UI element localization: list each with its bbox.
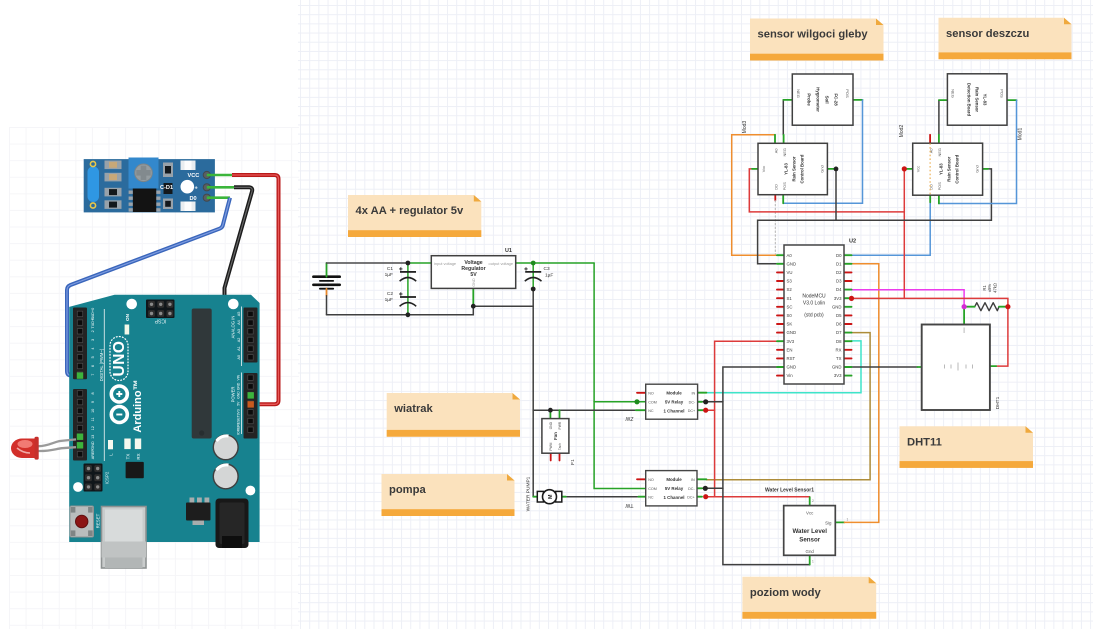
svg-text:NEG: NEG xyxy=(937,148,942,156)
svg-text:GND: GND xyxy=(787,261,797,266)
svg-text:3V3: 3V3 xyxy=(237,409,241,415)
wire: sensor D0 stub (green) xyxy=(207,196,230,199)
svg-text:YL-83: YL-83 xyxy=(784,163,789,175)
svg-text:ICSP2: ICSP2 xyxy=(105,471,110,484)
svg-text:GND: GND xyxy=(832,304,842,309)
svg-text:D6: D6 xyxy=(836,322,842,327)
Mod3 NEG stub (green) xyxy=(783,135,785,144)
battery positive lead (green) xyxy=(326,263,328,277)
wire: gray GND net NodeMCU left GND down to relays DC- and WLS Gnd xyxy=(723,367,810,565)
svg-text:A2: A2 xyxy=(237,338,241,343)
svg-text:9: 9 xyxy=(91,401,95,403)
svg-text:Control Board: Control Board xyxy=(800,154,805,183)
wire: sensor VCC stub (green) xyxy=(207,174,232,177)
wire: 5V rail to relay TW COM (green) xyxy=(594,402,646,489)
wire: C1/C2 vertical (green) xyxy=(407,263,409,315)
power header VIN..IOREF xyxy=(244,373,258,439)
svg-text:Mod3: Mod3 xyxy=(742,121,748,134)
svg-text:input voltage: input voltage xyxy=(434,261,456,266)
svg-text:GND: GND xyxy=(91,441,95,450)
wire: blue D0 to Arduino digital 7 xyxy=(67,198,230,376)
ratsnest: Mod2 A0 to DO (orange dotted, over box) xyxy=(929,143,931,195)
svg-text:sensor wilgoci gleby: sensor wilgoci gleby xyxy=(758,29,869,41)
svg-text:IOREF: IOREF xyxy=(237,425,241,435)
NodeMCU U2 pin stubs (left: A0..Vin, right: D0..3V3) xyxy=(777,254,784,256)
FC-28 POS stub (green) xyxy=(853,99,863,101)
svg-text:DHT1: DHT1 xyxy=(995,396,1001,409)
water pump WATER PUMP1 (motor symbol) xyxy=(537,491,543,502)
note: sensor deszczu xyxy=(939,18,1072,60)
wire: DHT data lead (green) xyxy=(963,307,965,325)
voltage regulator U1 xyxy=(431,256,515,289)
wire: U1 output to C3 and to relay rail (green) xyxy=(516,262,594,264)
svg-text:YL-83: YL-83 xyxy=(938,163,943,175)
ICSP header (top) xyxy=(146,300,175,319)
svg-text:WATER PUMP1: WATER PUMP1 xyxy=(525,476,531,511)
svg-text:POS: POS xyxy=(782,182,787,191)
svg-text:Gnd: Gnd xyxy=(806,549,815,554)
wire: black FC-28 NEG down to Mod3 NEG xyxy=(782,100,784,135)
svg-text:Vcc: Vcc xyxy=(916,166,921,173)
svg-text:Probe: Probe xyxy=(807,93,812,106)
wire: C3 vertical (green) xyxy=(532,263,534,289)
wire: relay ZW COM (green) xyxy=(594,401,646,403)
svg-text:Sig: Sig xyxy=(825,520,832,525)
NodeMCU V3.0 Lolin U2 xyxy=(784,245,844,384)
node: relay TW DC- xyxy=(703,486,708,491)
node: fan GND tap xyxy=(548,408,553,413)
node: U1 GND xyxy=(471,304,476,309)
note: pompa xyxy=(382,474,515,516)
USB connector xyxy=(102,507,147,569)
svg-text:POWER: POWER xyxy=(230,387,235,403)
relay ZW NC pin stub (green) xyxy=(636,409,646,411)
svg-text:A5: A5 xyxy=(237,312,241,317)
svg-text:5V: 5V xyxy=(237,401,241,406)
wire: battery- down to bottom rail (black) xyxy=(326,296,328,315)
svg-text:S0: S0 xyxy=(787,313,793,318)
node: relay TW DC+ xyxy=(703,494,708,499)
svg-text:DC-: DC- xyxy=(689,400,696,404)
svg-text:Water Level: Water Level xyxy=(792,528,827,535)
ratsnest: Mod2 A0 to DO (orange dotted) xyxy=(929,143,931,195)
svg-text:A4: A4 xyxy=(237,320,241,325)
svg-text:Rain Sensor: Rain Sensor xyxy=(792,156,797,181)
node: relay ZW DC+ xyxy=(703,408,708,413)
RESET button xyxy=(70,506,94,537)
svg-text:10: 10 xyxy=(91,409,95,413)
svg-text:sensor deszczu: sensor deszczu xyxy=(946,28,1029,40)
note: 4x AA + regulator 5v xyxy=(348,195,481,237)
svg-text:NC: NC xyxy=(648,495,654,499)
svg-text:FC-28: FC-28 xyxy=(834,93,839,106)
svg-text:NEG: NEG xyxy=(796,89,801,98)
svg-text:D3: D3 xyxy=(836,279,842,284)
FC-28 NEG stub (green) xyxy=(783,99,792,101)
connected-pin markers xyxy=(77,372,83,378)
svg-text:S1: S1 xyxy=(787,296,793,301)
wire: blue net NodeMCU D0 to Mod2 DO xyxy=(852,202,931,255)
svg-text:DC-: DC- xyxy=(688,487,695,491)
power jack xyxy=(216,499,249,549)
UNO logo xyxy=(110,337,128,381)
svg-text:Vcc: Vcc xyxy=(761,166,766,173)
svg-text:Tach: Tach xyxy=(558,443,562,450)
svg-text:COM: COM xyxy=(648,487,657,491)
svg-text:4: 4 xyxy=(91,348,95,350)
svg-text:NO: NO xyxy=(648,478,654,482)
wire: blue FC-28 POS to Mod3 POS xyxy=(783,100,862,203)
svg-text:7: 7 xyxy=(91,374,95,376)
svg-text:Mod1: Mod1 xyxy=(1018,128,1024,141)
svg-text:DO: DO xyxy=(774,184,779,190)
Arduino infinity logo xyxy=(111,386,127,402)
Mod2 DO stub (green) xyxy=(929,195,931,202)
Mod1 NEG stub (green) xyxy=(939,99,948,101)
svg-text:U2: U2 xyxy=(849,239,856,245)
svg-text:6: 6 xyxy=(91,365,95,367)
svg-text:output voltage: output voltage xyxy=(489,261,513,266)
svg-text:NodeMCU: NodeMCU xyxy=(802,294,826,300)
YL-83 Rain Sensor Control Board (Mod2) xyxy=(913,143,983,195)
Arduino UNO board xyxy=(69,295,259,542)
svg-text:NEG: NEG xyxy=(782,148,787,156)
wire: black rail to relay ZW NC, fan GND tap (black) xyxy=(533,409,636,411)
svg-text:3V3: 3V3 xyxy=(834,373,842,378)
svg-text:PWR: PWR xyxy=(558,421,562,429)
fan F1 unconnected bottom stubs (red) xyxy=(550,453,552,460)
svg-text:RST: RST xyxy=(787,356,796,361)
WLS Vcc stub (green) xyxy=(809,497,811,505)
svg-text:5: 5 xyxy=(91,356,95,358)
ICSP2 header (bottom) xyxy=(84,464,103,492)
svg-text:D5: D5 xyxy=(836,313,842,318)
Mod3 A0 stub (green) xyxy=(774,135,776,144)
node: relay ZW DC- xyxy=(703,399,708,404)
svg-text:1: 1 xyxy=(847,518,849,522)
svg-text:8: 8 xyxy=(91,392,95,394)
FC-28 Soil Hygrometer Probe xyxy=(792,74,853,125)
wire: orange net Mod3 A0 to NodeMCU A0 xyxy=(732,135,777,255)
Mod2 NEG stub (green) xyxy=(938,135,940,143)
node: gnd rail/C2 xyxy=(406,312,411,317)
resistor R1 47k zigzag xyxy=(975,303,999,311)
svg-text:C3: C3 xyxy=(544,266,550,272)
svg-text:D2: D2 xyxy=(836,270,842,275)
svg-text:Control Board: Control Board xyxy=(954,154,959,183)
svg-text:ANALOG IN: ANALOG IN xyxy=(230,316,235,339)
svg-text:1µF: 1µF xyxy=(545,273,553,279)
svg-text:DC+: DC+ xyxy=(688,409,695,413)
Mod2 Vcc stub (green) + red junction xyxy=(904,168,912,170)
svg-text:D7: D7 xyxy=(836,330,842,335)
svg-text:SC: SC xyxy=(787,304,793,309)
wire: C1 top to U1 input (green) xyxy=(408,262,431,264)
node: 5V/C3 xyxy=(531,261,536,266)
note: DHT11 xyxy=(900,426,1034,468)
svg-text:IN: IN xyxy=(692,391,696,395)
capacitor C3 1uF xyxy=(524,267,541,281)
battery BAT1 (4xAA) xyxy=(313,277,339,289)
svg-text:D4: D4 xyxy=(836,287,842,292)
svg-text:1: 1 xyxy=(812,560,814,564)
svg-text:IN: IN xyxy=(691,478,695,482)
wire: battery+ to C1 top (gray) xyxy=(327,262,408,264)
svg-text:UNO: UNO xyxy=(111,341,128,377)
svg-text:11: 11 xyxy=(91,417,95,421)
relay module ZW (Module 5V Relay 1 Channel) xyxy=(646,384,698,419)
svg-text:TW: TW xyxy=(625,502,633,508)
svg-text:Mod2: Mod2 xyxy=(899,125,905,138)
wire: gray NodeMCU right GND to DHT11 Gnd xyxy=(852,366,918,368)
svg-text:GND: GND xyxy=(237,382,241,390)
svg-text:NO: NO xyxy=(648,391,654,395)
USB interface IC xyxy=(126,462,144,478)
svg-text:SK: SK xyxy=(787,322,793,327)
svg-text:S3: S3 xyxy=(787,279,793,284)
node: battery+/C1 xyxy=(406,261,411,266)
Mod2 POS stub (green) xyxy=(938,195,940,203)
svg-text:D1: D1 xyxy=(836,261,842,266)
node: R1 right / 3V3 xyxy=(1005,304,1010,309)
svg-text:Sensor: Sensor xyxy=(799,537,821,544)
svg-text:12: 12 xyxy=(91,426,95,430)
svg-text:47kΩ: 47kΩ xyxy=(992,283,997,293)
svg-text:C-D1: C-D1 xyxy=(160,185,173,191)
svg-text:1µF: 1µF xyxy=(385,297,393,303)
svg-text:S2: S2 xyxy=(787,287,793,292)
svg-text:C2: C2 xyxy=(387,291,393,297)
svg-text:ZW: ZW xyxy=(625,415,633,421)
svg-text:Hygrometer: Hygrometer xyxy=(816,87,821,112)
svg-text:ICSP: ICSP xyxy=(154,318,166,324)
svg-text:TX: TX xyxy=(836,356,842,361)
relay TW NO pin stub (red, unconnected) xyxy=(637,478,646,480)
svg-text:D8: D8 xyxy=(836,339,842,344)
board mounting holes xyxy=(126,299,137,310)
voltage regulator (SOT-223) xyxy=(190,498,195,504)
svg-text:Gnd: Gnd xyxy=(975,165,980,172)
svg-text:3: 3 xyxy=(91,339,95,341)
note: poziom wody xyxy=(742,577,876,619)
svg-text:VIN: VIN xyxy=(237,374,241,380)
svg-text:Soil: Soil xyxy=(825,96,830,104)
electrolytic capacitors xyxy=(213,435,238,460)
analog header A5-A0 xyxy=(244,308,258,363)
svg-text:Gnd: Gnd xyxy=(820,165,825,172)
svg-text:5V Relay: 5V Relay xyxy=(665,486,684,491)
svg-text:AREF: AREF xyxy=(91,448,95,459)
svg-text:Arduino™: Arduino™ xyxy=(132,379,144,432)
svg-text:RX: RX xyxy=(136,453,141,459)
svg-text:5V Relay: 5V Relay xyxy=(665,400,684,405)
svg-text:A0: A0 xyxy=(774,148,779,154)
node: relay ZW COM xyxy=(634,399,639,404)
svg-text:A1: A1 xyxy=(237,346,241,351)
svg-text:U1: U1 xyxy=(505,248,512,254)
svg-text:POS: POS xyxy=(937,182,942,191)
svg-text:GND: GND xyxy=(787,330,797,335)
wire: relay TW DC+ to Water Level Sensor Vcc (red) xyxy=(706,496,810,498)
svg-text:TX: TX xyxy=(125,454,130,460)
svg-text:Module: Module xyxy=(666,391,682,396)
note: sensor wilgoci gleby xyxy=(750,19,884,61)
Mod2 A0 stub (red, unconnected) xyxy=(929,135,931,143)
node: Mod3 Gnd xyxy=(834,167,839,172)
relay module TW (Module 5V Relay 1 Channel) xyxy=(646,471,697,506)
R1 value label (R1 ±5% 47kΩ) xyxy=(982,283,997,293)
relay ZW DC- stub xyxy=(698,401,723,403)
svg-text:VCC: VCC xyxy=(188,173,200,179)
svg-text:3V3: 3V3 xyxy=(834,296,842,301)
fan F1 xyxy=(542,419,569,454)
wire: magenta net NodeMCU D4 to R1/DHT data junction xyxy=(852,290,965,307)
svg-text:RX: RX xyxy=(836,347,842,352)
svg-text:A3: A3 xyxy=(237,329,241,334)
Mod1 POS stub (green) xyxy=(1007,99,1017,101)
wire: blue Mod1 POS to Mod2 POS xyxy=(939,100,1017,203)
ratsnest: Mod3 DO to NodeMCU A0 (gray dotted) xyxy=(774,201,776,255)
svg-text:1µF: 1µF xyxy=(385,272,393,278)
svg-text:C1: C1 xyxy=(387,266,393,272)
svg-text:RESET: RESET xyxy=(96,513,101,528)
Water Level Sensor xyxy=(784,506,836,556)
svg-text:A0: A0 xyxy=(787,253,793,258)
svg-text:DHT11: DHT11 xyxy=(907,436,942,448)
svg-text:1 Channel: 1 Channel xyxy=(664,495,685,500)
svg-text:(std pcb): (std pcb) xyxy=(804,313,824,319)
svg-text:13: 13 xyxy=(91,435,95,439)
svg-text:NEG: NEG xyxy=(951,89,956,98)
svg-text:DIGITAL (PWM~): DIGITAL (PWM~) xyxy=(99,348,104,381)
svg-text:5V: 5V xyxy=(470,272,477,278)
R1 leads (green) xyxy=(964,306,975,308)
YL-83 Rain Sensor Detection Board (Mod1) xyxy=(947,74,1007,125)
DHT11 sensor DHT1 xyxy=(922,325,990,411)
relay TW NC stub (green) xyxy=(638,496,645,498)
svg-text:M: M xyxy=(548,494,554,499)
svg-text:YL-83: YL-83 xyxy=(983,94,988,106)
svg-text:TXD+1: TXD+1 xyxy=(91,317,95,329)
svg-text:pompa: pompa xyxy=(389,484,426,496)
svg-text:V3.0 Lolin: V3.0 Lolin xyxy=(803,301,825,307)
svg-text:2: 2 xyxy=(812,499,814,503)
node: R1/D4/DHT data xyxy=(962,304,967,309)
svg-text:GND: GND xyxy=(237,391,241,399)
svg-text:POS: POS xyxy=(999,89,1004,98)
svg-text:GND: GND xyxy=(549,421,553,429)
svg-text:D0: D0 xyxy=(836,253,842,258)
relay TW IN stub (green) xyxy=(697,478,706,480)
svg-text:Module: Module xyxy=(666,477,682,482)
YL-83 Rain Sensor Control Board (Mod3) xyxy=(758,143,827,194)
Mod3 POS stub (green) xyxy=(782,195,784,204)
ATmega328 IC xyxy=(192,309,212,439)
red LED on pins 13/GND xyxy=(11,437,76,460)
svg-text:Rain Sensor: Rain Sensor xyxy=(975,87,980,112)
svg-text:DO: DO xyxy=(929,184,934,190)
svg-text:GND: GND xyxy=(832,365,842,370)
svg-text:D0: D0 xyxy=(190,196,197,202)
wire: black GND to Arduino GND xyxy=(225,187,253,393)
wire: black Mod1 NEG to Mod2 NEG xyxy=(938,100,940,135)
wire: black gnd bus Mod2.Gnd/Mod3.Gnd to NodeMCU left GND xyxy=(835,169,837,220)
wire: bottom ground rail (black) xyxy=(327,306,534,315)
wire: cyan net NodeMCU D8 to relay ZW IN xyxy=(706,341,861,393)
wire: red 3V3 rail from NodeMCU left 3V3 to both relay DC+ pins xyxy=(715,341,777,497)
note: wiatrak xyxy=(387,393,520,437)
wire: red 3V3 net NodeMCU right 3V3 to R1 and DHT Vcc xyxy=(852,298,1008,366)
svg-text:GND: GND xyxy=(787,365,797,370)
wire: C3 bottom down to relay NC rail (black) xyxy=(532,289,534,497)
svg-text:poziom wody: poziom wody xyxy=(750,587,822,599)
WLS Sig stub (green) xyxy=(835,521,844,523)
svg-text:EN: EN xyxy=(787,347,793,352)
wire: red Mod3 Vcc to Mod2 Vcc and 3V3 rail xyxy=(749,169,904,299)
svg-text:F1: F1 xyxy=(570,459,576,465)
svg-text:Fan: Fan xyxy=(553,432,558,440)
wire: pump left terminal stub (green) xyxy=(533,496,537,498)
svg-text:4x AA + regulator 5v: 4x AA + regulator 5v xyxy=(356,205,464,217)
DHT11 Vcc stub (green) xyxy=(990,365,996,367)
svg-text:DC+: DC+ xyxy=(687,495,694,499)
relay TW DC- stub xyxy=(697,487,723,489)
svg-text:ON: ON xyxy=(125,313,130,321)
svg-text:A0: A0 xyxy=(929,148,934,154)
wire: pump right terminal to relay TW NC (gray) xyxy=(566,496,639,498)
svg-text:Vcc: Vcc xyxy=(806,511,814,516)
svg-text:wiatrak: wiatrak xyxy=(393,403,433,415)
node: C3 bottom xyxy=(531,287,536,292)
wire: U1 GND stub (green) xyxy=(472,288,474,306)
node: NodeMCU 3V3 right xyxy=(849,296,854,301)
svg-text:1 Channel: 1 Channel xyxy=(664,409,685,414)
svg-text:A0: A0 xyxy=(237,355,241,360)
battery negative lead (orange stub) xyxy=(326,289,328,296)
wire: 5V rail down to relay COM pins (green) xyxy=(593,263,595,402)
wire: sensor middle stub (green) xyxy=(207,186,234,189)
digital header pins 8-13,GND,AREF xyxy=(73,389,87,461)
relay ZW DC+ stub xyxy=(698,409,715,411)
svg-text:3V3: 3V3 xyxy=(787,339,795,344)
svg-text:GND: GND xyxy=(472,278,476,287)
svg-text:Water Level Sensor1: Water Level Sensor1 xyxy=(765,488,814,494)
WLS Gnd stub (green) xyxy=(809,555,811,564)
fan F1 PWR stub (green) xyxy=(559,410,561,418)
wire: olive net NodeMCU D7 to relay TW IN xyxy=(706,333,870,480)
svg-text:PWM: PWM xyxy=(549,442,553,450)
svg-text:VU: VU xyxy=(787,270,793,275)
Mod3 DO stub (red, unconnected) xyxy=(774,195,776,201)
svg-text:2: 2 xyxy=(91,330,95,332)
silkscreen separator lines xyxy=(104,307,241,462)
fan F1 GND stub (green) xyxy=(549,410,551,418)
DHT11 Gnd stub (green) xyxy=(917,366,921,368)
svg-text:Vin: Vin xyxy=(787,373,794,378)
sensor module (blue breakout board) xyxy=(84,158,215,213)
L / TX / RX LEDs xyxy=(108,440,113,449)
svg-text:Detection Board: Detection Board xyxy=(967,83,972,117)
capacitor C1 1uF xyxy=(399,267,416,281)
wire: orange net NodeMCU D1 to WLS Sig xyxy=(844,264,878,523)
digital header pins 0-7 xyxy=(73,308,87,380)
capacitor C2 1uF xyxy=(399,292,416,306)
svg-text:NC: NC xyxy=(648,409,654,413)
relay ZW IN stub (green) xyxy=(698,392,707,394)
svg-text:POS: POS xyxy=(845,89,850,98)
svg-text:Rain Sensor: Rain Sensor xyxy=(946,156,951,181)
wire: black Mod3 Gnd junction xyxy=(827,168,836,170)
